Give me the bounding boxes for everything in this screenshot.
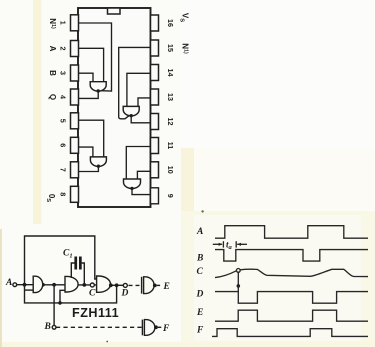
background cream bottom band bbox=[0, 342, 375, 347]
speck near timing top bbox=[201, 210, 203, 212]
node A junction dot bbox=[23, 283, 27, 287]
pin 13 bbox=[151, 89, 159, 105]
svg-text:C: C bbox=[197, 267, 204, 277]
riser from C circle to D edge bbox=[237, 272, 239, 291]
background white circuit region bbox=[2, 224, 181, 342]
gate K2 bbox=[65, 276, 78, 292]
B riser wire bbox=[53, 285, 55, 326]
svg-text:E: E bbox=[163, 282, 170, 292]
background cream right region bbox=[181, 211, 375, 347]
wire gate G3 output to pin7 bbox=[79, 168, 99, 172]
svg-text:D: D bbox=[196, 290, 204, 300]
wire gate K3 out to node D bbox=[111, 284, 124, 286]
dot on riser bbox=[237, 284, 241, 288]
svg-text:B: B bbox=[44, 322, 51, 332]
svg-text:3: 3 bbox=[59, 71, 68, 75]
gate E output dot bbox=[153, 284, 157, 288]
svg-text:16: 16 bbox=[166, 19, 175, 27]
junction dot gate K3 output bbox=[109, 283, 113, 287]
gate E body bbox=[144, 277, 155, 294]
svg-text:B: B bbox=[196, 254, 203, 264]
capacitor C1 left lead bbox=[71, 263, 74, 278]
pin 16 bbox=[151, 15, 159, 31]
wire gate G1 output to pin4 bbox=[79, 93, 99, 99]
wire pin15 to gate G2 output node bbox=[119, 47, 151, 118]
pin 7 bbox=[71, 162, 79, 178]
svg-text:14: 14 bbox=[166, 69, 175, 77]
wire pin13 to gate G2 right input bbox=[138, 98, 151, 107]
gate K1 bbox=[33, 276, 43, 292]
ta annotation left arrow bbox=[213, 243, 222, 245]
nand gate G3 (pins 6,5 -> 7) bbox=[90, 157, 106, 166]
waveform E bbox=[215, 310, 368, 321]
capacitor C1 left plate bbox=[74, 257, 77, 270]
pin 14 bbox=[151, 65, 159, 81]
wire pin10 to gate G4 right input bbox=[137, 171, 150, 179]
svg-text:13: 13 bbox=[166, 93, 175, 101]
svg-text:12: 12 bbox=[166, 118, 175, 126]
gate E input bar bbox=[141, 277, 143, 294]
svg-text:1: 1 bbox=[59, 21, 68, 25]
wire pin14 to gate G2 left input bbox=[127, 73, 151, 106]
B terminal circle bbox=[52, 325, 56, 329]
background dark left edge artifact bbox=[0, 229, 2, 347]
node C open circle bbox=[90, 283, 94, 287]
svg-text:5: 5 bbox=[59, 119, 68, 123]
junction dot D feedback riser bbox=[115, 283, 119, 287]
wire gate K2 out to node C and gate K3 bbox=[78, 284, 97, 286]
svg-text:F: F bbox=[162, 324, 170, 334]
gate K3 bbox=[97, 276, 111, 292]
pin 5 bbox=[71, 113, 79, 129]
pin 2 bbox=[71, 41, 79, 57]
junction dot bottom feedback to gate K2 lower input bbox=[58, 301, 62, 305]
junction dot B riser bbox=[52, 283, 56, 287]
waveform B bbox=[215, 250, 368, 262]
wire gate G2 output to pin12 bbox=[131, 117, 150, 123]
svg-text:7: 7 bbox=[59, 168, 68, 172]
svg-text:D: D bbox=[121, 289, 129, 299]
waveform C curve bbox=[215, 269, 368, 277]
wire gate G4 output to pin9 bbox=[132, 190, 151, 195]
wire A down to gate K1 lower input bbox=[25, 285, 117, 303]
svg-text:A: A bbox=[196, 227, 203, 237]
svg-text:C: C bbox=[89, 289, 96, 299]
pin 1 bbox=[71, 15, 79, 31]
waveform F bbox=[212, 329, 368, 337]
gate F input bar bbox=[141, 320, 143, 336]
svg-text:A: A bbox=[5, 278, 12, 288]
pin labels bbox=[45, 13, 189, 202]
background white upper-left region bbox=[0, 0, 181, 224]
pin 8 bbox=[71, 186, 79, 202]
wire pin6 to gate G3 left input bbox=[79, 147, 93, 157]
timing labels bbox=[196, 227, 233, 336]
pin 12 bbox=[151, 114, 159, 130]
speck below FZH111 bbox=[106, 341, 108, 343]
IC body bbox=[78, 8, 151, 207]
junction dot gate K1 output bbox=[41, 283, 45, 287]
wire pin1 to gate G1 output node bbox=[79, 23, 112, 91]
nand gate G1 (pins 2,3 -> 4) bbox=[90, 82, 106, 91]
dashed wire B to gate F bbox=[56, 326, 142, 328]
nand gate G4 (pins 11,10 -> 9) bbox=[124, 179, 141, 188]
dashed wire node D to gate E bbox=[129, 284, 142, 286]
junction dot capacitor riser bbox=[82, 283, 86, 287]
background white waveform inner region bbox=[194, 215, 361, 341]
pin 11 bbox=[151, 138, 159, 154]
svg-text:E: E bbox=[196, 308, 203, 318]
dash gate E to label bbox=[157, 284, 162, 286]
wire pin3 to gate G1 left input bbox=[79, 73, 94, 82]
gate K1 lower input stub bbox=[25, 289, 34, 291]
svg-text:2: 2 bbox=[59, 47, 68, 51]
ta annotation left tick bbox=[222, 241, 224, 247]
svg-text:4: 4 bbox=[59, 95, 68, 99]
svg-text:A: A bbox=[48, 46, 57, 52]
ta annotation right tick bbox=[235, 241, 237, 247]
waveform D bbox=[215, 292, 368, 304]
wire pin5 to gate G3 right input bbox=[79, 120, 104, 157]
node circle on C curve bbox=[236, 269, 240, 273]
svg-text:11: 11 bbox=[166, 142, 175, 150]
pin 3 bbox=[71, 65, 79, 81]
feedback wire top loop to gate K3 upper input bbox=[25, 236, 97, 285]
wire pin2 to gate G1 right input bbox=[79, 48, 104, 82]
wire pin11 to gate G4 left input bbox=[126, 147, 150, 180]
svg-text:9: 9 bbox=[166, 194, 175, 198]
ta annotation right arrow bbox=[237, 243, 247, 245]
background cream strip mid bbox=[181, 148, 194, 213]
gate F body bbox=[144, 320, 155, 336]
node D open circle bbox=[123, 283, 127, 287]
pin 4 bbox=[71, 89, 79, 105]
nand gate G2 (pins 14,13 -> 12) bbox=[123, 106, 139, 115]
input terminal A circle bbox=[13, 283, 17, 287]
background cream strip left bbox=[33, 0, 42, 224]
main wire gate K1 out to gate K2 bbox=[43, 284, 65, 286]
svg-text:Q: Q bbox=[48, 94, 57, 100]
svg-text:FZH111: FZH111 bbox=[72, 306, 119, 320]
svg-text:8: 8 bbox=[59, 192, 68, 196]
svg-text:6: 6 bbox=[59, 143, 68, 147]
svg-text:15: 15 bbox=[166, 44, 175, 52]
waveform A bbox=[215, 226, 368, 239]
svg-text:10: 10 bbox=[166, 166, 175, 174]
dash gate F to label bbox=[158, 326, 162, 328]
wire A to node bbox=[17, 284, 34, 286]
gate F output dot bbox=[154, 325, 158, 329]
pin 6 bbox=[71, 137, 79, 153]
pin 9 bbox=[151, 188, 159, 204]
pin 15 bbox=[151, 40, 159, 56]
gate K2 lower input jog bbox=[60, 290, 65, 303]
circuit labels bbox=[5, 249, 170, 335]
pin 10 bbox=[151, 162, 159, 178]
index notch bbox=[108, 8, 121, 14]
svg-text:B: B bbox=[48, 70, 57, 76]
svg-text:F: F bbox=[196, 326, 204, 336]
background white upper-right region bbox=[181, 0, 375, 148]
capacitor C1 right lead bbox=[82, 263, 85, 283]
capacitor C1 right plate bbox=[79, 257, 82, 270]
